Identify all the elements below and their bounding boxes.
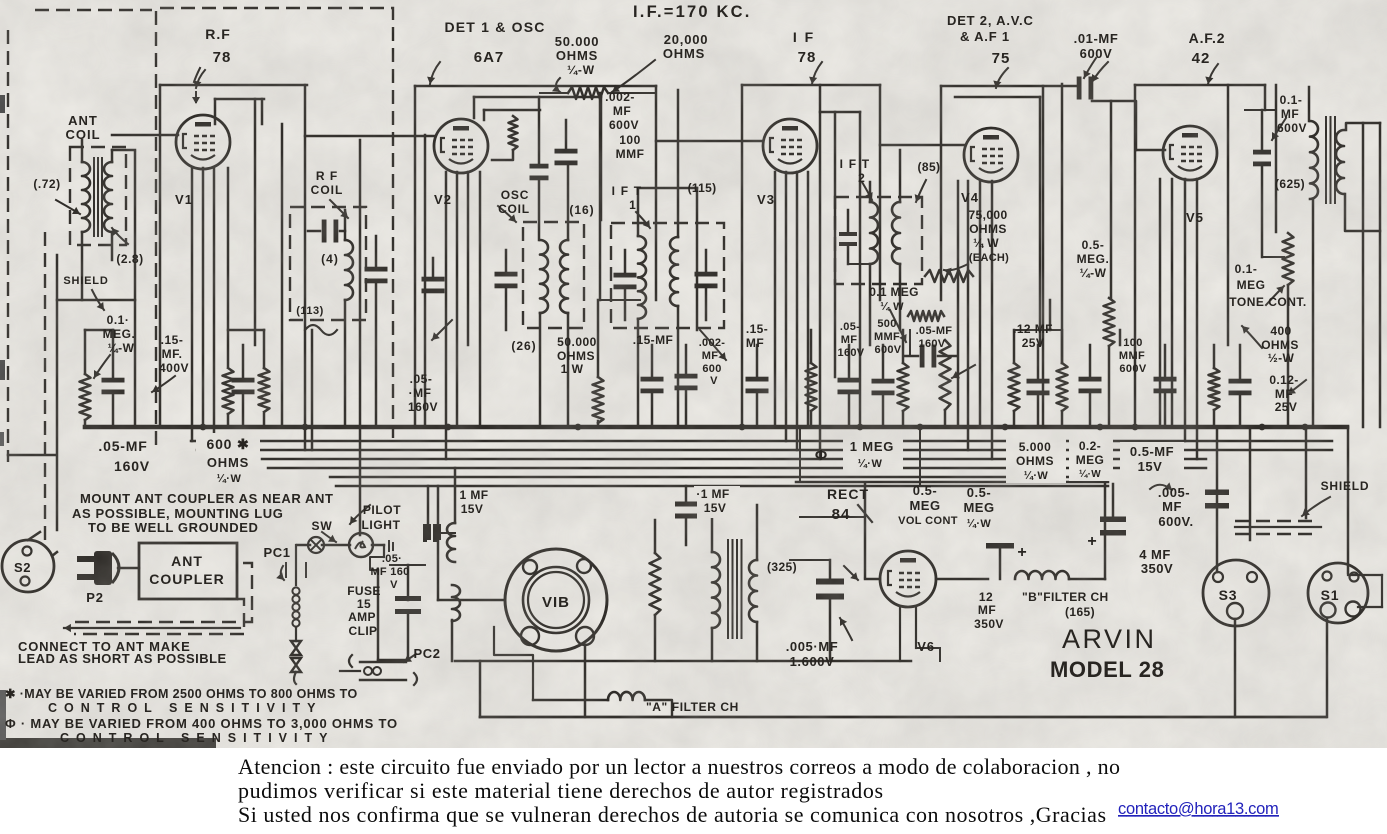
svg-text:TO BE WELL GROUNDED: TO BE WELL GROUNDED [88,520,259,535]
svg-text:Si usted nos confirma que se v: Si usted nos confirma que se vulneran de… [238,802,1106,827]
svg-text:S2: S2 [14,560,31,575]
svg-text:15V: 15V [461,502,484,516]
svg-text:600V: 600V [1119,363,1147,375]
svg-text:¼-W: ¼-W [108,341,135,355]
svg-text:V3: V3 [757,192,775,207]
svg-text:MF: MF [613,104,631,118]
svg-text:78: 78 [213,49,232,66]
svg-text:350V: 350V [1141,561,1173,576]
svg-text:6A7: 6A7 [474,49,505,66]
svg-text:½-W: ½-W [1268,351,1295,365]
svg-text:(16): (16) [569,203,594,217]
svg-text:V4: V4 [961,190,979,205]
svg-text:600V: 600V [875,344,902,356]
svg-text:✱ ·MAY BE VARIED FROM 2500 OHM: ✱ ·MAY BE VARIED FROM 2500 OHMS TO 800 O… [5,687,358,701]
svg-text:CLIP: CLIP [349,624,378,638]
svg-text:R.F: R.F [205,26,231,42]
svg-text:.15-MF: .15-MF [633,333,673,347]
svg-text:75,000: 75,000 [968,208,1007,222]
svg-text:12: 12 [979,590,993,604]
svg-text:MMF: MMF [1119,350,1145,362]
svg-text:(.72): (.72) [33,177,60,191]
svg-text:AMP: AMP [348,610,376,624]
svg-text:0.5-MF: 0.5-MF [1130,444,1174,459]
svg-text:MEG: MEG [963,500,994,515]
svg-text:600V: 600V [1080,46,1113,61]
svg-text:.005·MF: .005·MF [786,639,839,654]
svg-text:MF: MF [1275,387,1293,401]
svg-text:LIGHT: LIGHT [362,518,401,532]
svg-text:¼·W: ¼·W [217,473,242,485]
svg-text:.15-: .15- [746,322,768,336]
svg-text:I F T: I F T [840,157,871,171]
svg-text:50.000: 50.000 [557,335,597,349]
svg-text:(4): (4) [321,252,339,266]
svg-text:.15-: .15- [161,333,184,347]
svg-text:0.1 MEG: 0.1 MEG [869,285,918,299]
svg-text:1: 1 [629,198,637,212]
svg-text:+: + [1017,544,1026,561]
svg-text:MF: MF [746,336,764,350]
svg-text:MEG.: MEG. [1077,252,1110,266]
svg-text:·MF: ·MF [409,386,432,400]
svg-text:MF: MF [1162,499,1182,514]
svg-text:COIL: COIL [498,202,530,216]
svg-text:600V: 600V [609,118,639,132]
svg-text:& A.F 1: & A.F 1 [960,29,1010,44]
svg-text:CONTROL SENSITIVITY: CONTROL SENSITIVITY [48,701,322,715]
svg-text:PILOT: PILOT [363,503,401,517]
svg-text:20,000: 20,000 [664,32,709,47]
svg-text:V: V [710,375,718,387]
svg-text:15V: 15V [1138,459,1163,474]
svg-text:4 MF: 4 MF [1139,547,1171,562]
svg-text:600 ✱: 600 ✱ [207,436,250,452]
svg-text:+: + [1087,533,1096,550]
svg-text:COIL: COIL [311,183,344,197]
svg-text:VOL CONT: VOL CONT [898,515,958,527]
svg-text:S1: S1 [1321,587,1340,603]
svg-text:MMF: MMF [616,147,645,161]
svg-text:PC1: PC1 [263,545,290,560]
svg-text:¼-W: ¼-W [567,63,595,77]
svg-text:V5: V5 [1186,210,1204,225]
svg-text:(165): (165) [1065,605,1095,619]
svg-text:OHMS: OHMS [207,455,249,470]
svg-text:42: 42 [1192,50,1211,67]
svg-text:OHMS: OHMS [1261,338,1299,352]
svg-text:¼·W: ¼·W [858,458,883,470]
svg-text:S3: S3 [1219,587,1238,603]
svg-text:MOUNT ANT COUPLER AS NEAR ANT: MOUNT ANT COUPLER AS NEAR ANT [80,491,334,506]
svg-text:TONE CONT.: TONE CONT. [1229,295,1306,309]
svg-text:.05·: .05· [382,553,402,565]
svg-text:160V: 160V [114,458,150,474]
svg-text:350V: 350V [974,617,1004,631]
svg-text:.002-: .002- [699,337,726,349]
svg-text:0.1-: 0.1- [1280,93,1303,107]
svg-text:MEG: MEG [1076,453,1105,467]
svg-text:MEG: MEG [909,498,940,513]
svg-text:.05-MF: .05-MF [916,325,953,337]
svg-text:0.5-: 0.5- [967,485,991,500]
svg-text:(EACH): (EACH) [969,252,1009,264]
svg-text:.005-: .005- [1158,485,1190,500]
svg-text:P2: P2 [86,590,104,605]
svg-text:¼·W: ¼·W [1024,470,1049,482]
svg-text:V2: V2 [434,192,452,207]
svg-text:MF: MF [702,350,718,362]
svg-text:.05-: .05- [840,321,860,333]
svg-text:(325): (325) [767,560,797,574]
svg-text:OSC: OSC [501,188,529,202]
svg-text:400: 400 [1270,324,1291,338]
svg-text:MEG.: MEG. [103,327,136,341]
svg-text:Atencion : este circuito fue e: Atencion : este circuito fue enviado por… [238,754,1120,779]
svg-text:(113): (113) [296,305,324,317]
svg-text:VIB: VIB [542,594,570,611]
svg-text:RECT: RECT [827,486,869,502]
svg-text:0.2-: 0.2- [1079,439,1101,453]
svg-text:1 MF: 1 MF [460,488,489,502]
svg-text:CONTROL SENSITIVITY: CONTROL SENSITIVITY [60,731,334,745]
svg-text:ANT: ANT [68,113,98,128]
svg-text:2: 2 [858,171,866,185]
svg-text:1 MEG: 1 MEG [850,439,894,454]
svg-text:(2.8): (2.8) [116,252,143,266]
svg-text:¼ W: ¼ W [973,236,999,250]
svg-text:15V: 15V [704,501,727,515]
svg-text:500: 500 [877,318,896,330]
svg-text:SW: SW [312,519,333,533]
svg-text:75: 75 [992,50,1011,67]
svg-text:160V: 160V [838,347,865,359]
svg-text:¼·W: ¼·W [967,518,992,530]
svg-text:ARVIN: ARVIN [1062,624,1157,654]
svg-text:OHMS: OHMS [557,349,595,363]
svg-text:1 W: 1 W [561,362,584,376]
svg-text:V1: V1 [175,192,193,207]
svg-text:0.12-: 0.12- [1269,373,1298,387]
svg-text:.05-MF: .05-MF [98,438,147,454]
svg-text:MF: MF [1281,107,1299,121]
svg-text:SHIELD: SHIELD [1321,479,1370,493]
svg-text:0.5-: 0.5- [1082,238,1105,252]
svg-text:"B"FILTER CH: "B"FILTER CH [1022,590,1109,604]
svg-text:.05-: .05- [410,372,433,386]
svg-text:¼·W: ¼·W [1079,469,1101,480]
svg-text:OHMS: OHMS [556,48,598,63]
svg-text:0.1-: 0.1- [1235,262,1258,276]
svg-text:DET 1 & OSC: DET 1 & OSC [444,19,545,35]
svg-text:¼-W: ¼-W [1080,266,1107,280]
svg-text:contacto@hora13.com: contacto@hora13.com [1118,800,1279,818]
svg-text:DET 2, A.V.C: DET 2, A.V.C [947,13,1034,28]
svg-text:MEG: MEG [1237,278,1266,292]
svg-text:84: 84 [832,506,851,523]
svg-text:LEAD AS SHORT AS POSSIBLE: LEAD AS SHORT AS POSSIBLE [18,651,227,666]
svg-text:.12 MF: .12 MF [1013,322,1053,336]
svg-text:AS POSSIBLE, MOUNTING LUG: AS POSSIBLE, MOUNTING LUG [72,506,283,521]
svg-text:600V: 600V [1277,121,1307,135]
svg-text:15: 15 [357,597,371,611]
svg-text:OHMS: OHMS [1016,454,1054,468]
svg-text:FUSE: FUSE [347,584,381,598]
svg-text:"A" FILTER CH: "A" FILTER CH [646,700,739,714]
svg-text:MF 160: MF 160 [370,566,409,578]
svg-text:.002-: .002- [605,90,635,104]
svg-text:MODEL 28: MODEL 28 [1050,657,1164,682]
svg-text:400V: 400V [159,361,189,375]
svg-text:0.1·: 0.1· [107,313,130,327]
svg-text:78: 78 [798,49,817,66]
svg-text:V6: V6 [917,639,935,654]
svg-text:I.F.=170 KC.: I.F.=170 KC. [633,3,752,21]
svg-text:5.000: 5.000 [1019,440,1052,454]
svg-text:V: V [390,579,398,591]
svg-text:·1 MF: ·1 MF [696,487,729,501]
svg-text:A.F.2: A.F.2 [1189,30,1226,46]
svg-text:160V: 160V [408,400,438,414]
svg-text:MF: MF [841,334,857,346]
svg-text:¼ W: ¼ W [880,301,904,313]
svg-text:160V: 160V [919,338,946,350]
svg-text:MMF: MMF [874,331,900,343]
svg-text:Φ · MAY BE VARIED FROM 400 OHM: Φ · MAY BE VARIED FROM 400 OHMS TO 3,000… [5,716,398,731]
svg-text:.01-MF: .01-MF [1074,31,1119,46]
svg-text:PC2: PC2 [413,646,440,661]
svg-text:pudimos verificar si este mate: pudimos verificar si este material tiene… [238,778,883,803]
svg-text:(115): (115) [688,181,717,195]
svg-text:100: 100 [619,133,641,147]
svg-text:(625): (625) [1275,177,1305,191]
svg-text:OHMS: OHMS [663,46,705,61]
svg-text:R F: R F [316,169,338,183]
svg-text:(26): (26) [511,339,536,353]
svg-text:SHIELD: SHIELD [63,275,108,287]
svg-text:COUPLER: COUPLER [149,571,224,587]
svg-text:MF.: MF. [162,347,183,361]
svg-text:100: 100 [1123,337,1143,349]
svg-text:(85): (85) [918,160,941,174]
svg-text:OHMS: OHMS [969,222,1007,236]
svg-text:25V: 25V [1022,336,1045,350]
svg-text:1.600V: 1.600V [790,654,835,669]
svg-text:600V.: 600V. [1158,514,1193,529]
svg-text:MF: MF [978,603,996,617]
svg-text:I F: I F [793,29,815,45]
svg-text:25V: 25V [1275,400,1298,414]
svg-text:ANT: ANT [171,553,203,569]
svg-text:I F T: I F T [612,184,643,198]
svg-text:0.5-: 0.5- [913,483,937,498]
svg-text:Φ: Φ [815,447,827,464]
svg-text:600: 600 [702,363,721,375]
svg-text:50.000: 50.000 [555,34,600,49]
svg-text:COIL: COIL [65,127,100,142]
